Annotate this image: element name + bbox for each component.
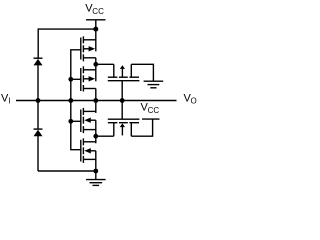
wire M3 drain rail from center node xyxy=(95,101,97,113)
svg-text:I: I xyxy=(8,96,10,105)
wire M3 body/source rail down to node H xyxy=(95,120,97,136)
transistor M4 (lower NMOS 2) xyxy=(81,138,96,163)
wire M1 drain/body rail from VCC node xyxy=(95,29,97,51)
transistor M3 (lower NMOS) xyxy=(81,108,96,133)
power bar VCC2 (lower right) xyxy=(142,118,160,120)
wire M1 source down to node F xyxy=(95,58,97,65)
wire node F to pass gate PT1 xyxy=(96,63,114,65)
node J (pass gate junction dot on center wire) xyxy=(120,98,125,103)
wire center I/O line xyxy=(16,100,177,102)
wire PT1 gate stem to center wire xyxy=(121,81,123,101)
wire bottom horizontal to ground node xyxy=(38,170,96,172)
output label V_O xyxy=(184,92,197,105)
node F (mid junction dot upper) xyxy=(93,62,98,67)
transistor M1 (upper PMOS) xyxy=(81,36,96,61)
wire M2 drain/body rail from node F xyxy=(95,64,97,81)
wire VCC stem xyxy=(95,20,97,29)
ground G1 (bottom center) xyxy=(86,171,106,185)
wire M4 drain rail from node H xyxy=(95,136,97,143)
input label V_I xyxy=(1,92,11,105)
node G (center wire junction dot) xyxy=(93,98,98,103)
node B (V_I junction dot on diode rail) xyxy=(36,98,41,103)
wire PT2 gate stem xyxy=(121,101,123,120)
node C (gate rail dot, M2 lead) xyxy=(68,77,80,82)
wire PT1 right stub to ground G2 xyxy=(131,64,153,80)
node D (gate rail crossing center wire) xyxy=(68,98,73,103)
transistor PT2 (lower pass FET) xyxy=(108,119,140,136)
power label VCC (top) xyxy=(85,3,104,16)
diode D1 (clamp to VCC) xyxy=(34,58,43,100)
wire M2 source down to center node xyxy=(95,89,97,101)
svg-text:CC: CC xyxy=(92,7,104,16)
node E (gate rail dot, M3 lead) xyxy=(68,119,80,124)
ground G2 (right) xyxy=(144,81,164,88)
wire PT2 left stub to node H xyxy=(96,135,114,137)
wire gate rail (left vertical with leads to M1 and M4) xyxy=(71,50,81,150)
svg-text:O: O xyxy=(191,97,197,106)
svg-text:CC: CC xyxy=(148,106,160,115)
diode D2 (clamp to GND) xyxy=(34,101,43,172)
node H (mid junction dot lower) xyxy=(93,134,98,139)
power label VCC2 xyxy=(141,102,160,115)
wire PT2 right stub to VCC2 xyxy=(131,119,152,136)
node I (ground junction dot) xyxy=(93,169,98,174)
wire M4 body/source rail down to ground node xyxy=(95,151,97,171)
wire top horizontal and down to diode D1 xyxy=(38,29,96,58)
power bar VCC (top) xyxy=(86,19,106,21)
transistor PT1 (upper pass FET) xyxy=(108,64,140,80)
transistor M2 (upper PMOS 2) xyxy=(81,66,96,91)
node A (VCC junction dot) xyxy=(93,27,98,32)
